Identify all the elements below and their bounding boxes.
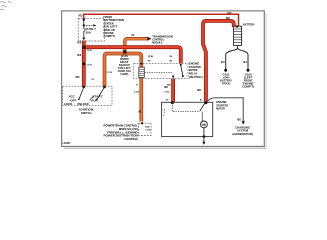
svg-text:RED: RED xyxy=(197,89,201,92)
svg-text:RED: RED xyxy=(78,14,82,17)
svg-text:RED: RED xyxy=(227,12,231,15)
svg-text:BR: BR xyxy=(138,111,141,113)
svg-text:RED: RED xyxy=(77,54,81,57)
svg-text:RED: RED xyxy=(164,86,168,89)
svg-text:RED: RED xyxy=(237,118,241,121)
svg-text:(T4): (T4) xyxy=(148,55,154,58)
svg-text:BATTERY: BATTERY xyxy=(243,22,255,26)
svg-text:LAMP): LAMP) xyxy=(120,72,128,76)
svg-text:RED: RED xyxy=(77,41,81,44)
svg-text:BLK: BLK xyxy=(221,61,225,64)
svg-text:30A: 30A xyxy=(86,30,91,34)
svg-text:LG0097: LG0097 xyxy=(63,142,71,145)
svg-text:COMP'T): COMP'T) xyxy=(103,34,115,38)
svg-text:(GENERATOR): (GENERATOR) xyxy=(232,132,252,136)
svg-text:C105: C105 xyxy=(145,129,151,131)
svg-text:(IN PDC): (IN PDC) xyxy=(189,75,203,79)
svg-text:MOTOR: MOTOR xyxy=(216,107,225,111)
svg-text:CENTER): CENTER) xyxy=(124,137,137,141)
svg-text:MODULE: MODULE xyxy=(152,41,162,45)
svg-text:BLK: BLK xyxy=(243,61,247,64)
svg-text:C125: C125 xyxy=(87,50,93,52)
svg-text:LOCK: LOCK xyxy=(64,102,73,106)
svg-text:TRAY): TRAY) xyxy=(222,81,231,85)
svg-text:UNLOCK: UNLOCK xyxy=(77,102,89,106)
svg-text:COMP'T): COMP'T) xyxy=(242,84,254,88)
svg-text:C110: C110 xyxy=(134,92,140,94)
svg-text:RED: RED xyxy=(76,76,80,79)
svg-text:OR: OR xyxy=(131,34,134,37)
svg-text:RUN: RUN xyxy=(91,98,97,102)
svg-text:RED: RED xyxy=(226,17,230,20)
svg-text:C176: C176 xyxy=(87,64,93,66)
svg-text:SWITCH: SWITCH xyxy=(81,111,91,115)
svg-text:C112: C112 xyxy=(164,92,170,94)
svg-text:C176: C176 xyxy=(107,72,113,74)
